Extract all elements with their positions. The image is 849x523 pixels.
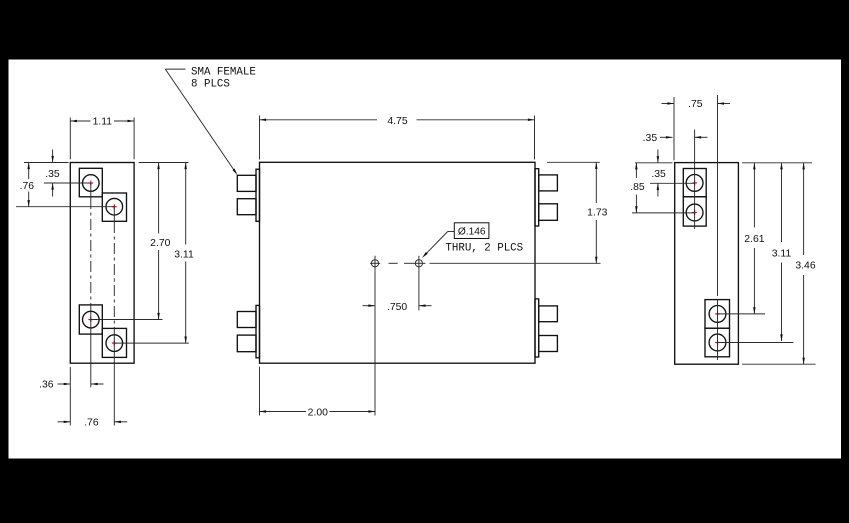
dimension .75 arrows bbox=[662, 102, 731, 105]
dimension 1.11 extension lines bbox=[70, 118, 134, 160]
dimension .36 arrows bbox=[58, 383, 104, 385]
right view bottom edge extension right bbox=[742, 363, 816, 365]
svg-text:3.11: 3.11 bbox=[174, 249, 194, 260]
dimension .35 left view arrows bbox=[51, 150, 54, 197]
svg-text:3.11: 3.11 bbox=[772, 249, 792, 260]
top view left connector body 2 bbox=[237, 199, 256, 215]
svg-text:SMA FEMALE: SMA FEMALE bbox=[191, 67, 256, 79]
dimension .76 left view line bbox=[27, 163, 30, 207]
hole centerline dashes bbox=[389, 262, 413, 264]
left view connector3 center extension line bbox=[91, 319, 163, 321]
left view SMA connector 1 flange bbox=[79, 168, 102, 197]
left view top edge extension line right bbox=[139, 162, 189, 164]
svg-text:4.75: 4.75 bbox=[387, 116, 407, 127]
dimension 1.11 text bbox=[93, 117, 113, 128]
dimension 2.00 line and arrows bbox=[260, 410, 376, 413]
svg-text:.35: .35 bbox=[651, 169, 666, 180]
right view SMA connector 2 flange bbox=[683, 197, 706, 226]
right view conn2 center extension left bbox=[632, 212, 695, 214]
left view top edge extension line left bbox=[24, 162, 69, 164]
right view SMA connector 2 center mark bbox=[692, 210, 697, 215]
right view top edge extension left bbox=[635, 162, 673, 164]
svg-text:8 PLCS: 8 PLCS bbox=[191, 79, 230, 91]
dimension 4.75 line and arrows bbox=[260, 119, 535, 122]
hole centerline extension right bbox=[430, 262, 601, 264]
right view lower pair centerline bbox=[717, 95, 719, 360]
right view left edge extension above bbox=[673, 97, 675, 160]
dimension .35 horizontal text bbox=[643, 133, 658, 144]
dimension .35 vertical text bbox=[651, 169, 666, 180]
dimension .36 text bbox=[39, 380, 54, 391]
right view body outline bbox=[675, 163, 739, 365]
dimension .76 bottom arrows bbox=[58, 421, 128, 424]
dimension .750 arrows bbox=[363, 304, 432, 307]
left view SMA connector 3 flange bbox=[79, 305, 102, 334]
left view centerline column A bbox=[90, 183, 92, 387]
top view left connector body 3 bbox=[237, 312, 256, 328]
dimension .35 left view text bbox=[45, 169, 60, 180]
right view SMA connector 1 barrel bbox=[686, 175, 703, 192]
dimension 2.70 text bbox=[150, 238, 170, 249]
top view right connector body 3 bbox=[539, 306, 558, 322]
left view body outline bbox=[70, 163, 134, 364]
svg-text:1.11: 1.11 bbox=[93, 117, 113, 128]
svg-text:.76: .76 bbox=[84, 418, 99, 429]
left view connector1 center extension line bbox=[44, 182, 91, 184]
right view SMA connector 1 flange bbox=[683, 169, 706, 197]
hole callout diameter text bbox=[458, 226, 486, 237]
dimension .85 text bbox=[630, 182, 645, 193]
top view right connector body 2 bbox=[539, 204, 558, 221]
left view centerline column B bbox=[113, 207, 115, 426]
top view left connector body 4 bbox=[237, 335, 256, 352]
right view conn1 center extension left bbox=[650, 182, 695, 184]
dimension 3.11 left view line bbox=[184, 163, 187, 344]
dimension 2.61 line bbox=[753, 163, 756, 314]
SMA FEMALE leader bbox=[165, 69, 237, 175]
hole callout box bbox=[454, 223, 489, 239]
svg-text:2.70: 2.70 bbox=[150, 238, 170, 249]
top view right connector body 4 bbox=[539, 336, 558, 352]
dimension .750 text bbox=[387, 302, 407, 313]
right view conn3 center extension right bbox=[718, 313, 766, 315]
dimension 2.61 text bbox=[744, 234, 764, 245]
left view SMA connector 2 flange bbox=[102, 193, 126, 221]
mounting hole 1 bbox=[370, 256, 380, 271]
right view conn4 center extension right bbox=[718, 342, 794, 344]
left view connector4 center extension line bbox=[114, 342, 189, 344]
right view SMA connector 4 flange bbox=[705, 328, 730, 357]
left view SMA connector 3 barrel bbox=[83, 311, 100, 328]
hole callout THRU text bbox=[445, 243, 523, 255]
dimension 1.73 text bbox=[587, 208, 607, 219]
right view SMA connector 3 center mark bbox=[715, 312, 720, 317]
hole1 centerline down bbox=[374, 271, 376, 416]
svg-text:Ø.146: Ø.146 bbox=[458, 226, 486, 237]
top view left edge extension below bbox=[259, 367, 261, 416]
dimension 1.11 line and arrows bbox=[70, 120, 134, 122]
svg-text:THRU, 2 PLCS: THRU, 2 PLCS bbox=[445, 243, 523, 255]
dimension 4.75 text bbox=[387, 116, 407, 127]
right view SMA connector 4 center mark bbox=[715, 340, 720, 345]
svg-text:.35: .35 bbox=[45, 169, 60, 180]
dimension 3.11 right view line bbox=[780, 163, 783, 341]
dimension 2.70 line bbox=[157, 163, 160, 320]
top view right connector body 1 bbox=[539, 175, 558, 191]
dimension .75 text bbox=[688, 99, 703, 110]
right view SMA connector 2 barrel bbox=[686, 204, 703, 221]
left view SMA connector 2 center mark bbox=[112, 204, 117, 209]
dimension .85 line bbox=[635, 163, 638, 213]
right view SMA connector 3 flange bbox=[705, 300, 730, 329]
svg-text:2.00: 2.00 bbox=[308, 408, 328, 419]
dimension 2.00 text bbox=[308, 408, 328, 419]
left view left edge extension line below bbox=[69, 367, 71, 426]
svg-text:.76: .76 bbox=[20, 181, 35, 192]
dimension 3.11 left view text bbox=[174, 249, 194, 260]
left view SMA connector 2 barrel bbox=[106, 198, 123, 215]
dimension .76 bottom text bbox=[84, 418, 99, 429]
svg-text:2.61: 2.61 bbox=[744, 234, 764, 245]
svg-text:.750: .750 bbox=[387, 302, 407, 313]
right view upper pair centerline bbox=[694, 130, 696, 230]
top view right upper connector pair flange bbox=[535, 169, 539, 226]
left view SMA connector 4 barrel bbox=[106, 335, 123, 352]
dimension 3.46 text bbox=[795, 261, 815, 272]
drawing sheet white area bbox=[9, 60, 842, 459]
mounting hole 2 bbox=[413, 256, 426, 271]
top edge extension line right of top view bbox=[547, 161, 600, 163]
dimension .35 vertical arrows bbox=[657, 150, 660, 197]
dimension 4.75 extension lines bbox=[260, 116, 535, 160]
svg-text:.85: .85 bbox=[630, 182, 645, 193]
hole callout leader bbox=[422, 232, 454, 259]
top view left lower connector pair flange bbox=[256, 305, 260, 357]
8 PLCS text bbox=[191, 79, 230, 91]
dimension .76 left view text bbox=[20, 181, 35, 192]
right view SMA connector 4 barrel bbox=[709, 334, 726, 351]
right view SMA connector 3 barrel bbox=[709, 306, 726, 323]
right view SMA connector 1 center mark bbox=[692, 181, 697, 186]
left view SMA connector 3 center mark bbox=[88, 317, 93, 322]
left view SMA connector 1 barrel bbox=[83, 175, 100, 192]
left view SMA connector 4 center mark bbox=[112, 341, 117, 346]
left view SMA connector 4 flange bbox=[102, 328, 126, 357]
top view right lower connector pair flange bbox=[535, 299, 539, 357]
dimension 3.11 right view text bbox=[772, 249, 792, 260]
left view connector2 center extension line bbox=[16, 206, 114, 208]
svg-text:1.73: 1.73 bbox=[587, 208, 607, 219]
svg-text:.35: .35 bbox=[643, 133, 658, 144]
top view body outline bbox=[260, 162, 536, 363]
top view left upper connector pair flange bbox=[256, 169, 260, 221]
dimension 3.46 line bbox=[802, 163, 805, 364]
svg-text:.36: .36 bbox=[39, 380, 54, 391]
top view left connector body 1 bbox=[237, 175, 256, 191]
dimension 1.73 line and arrows bbox=[595, 162, 598, 263]
SMA FEMALE text bbox=[191, 67, 256, 79]
right view top edge extension right bbox=[742, 162, 812, 164]
svg-text:.75: .75 bbox=[688, 99, 703, 110]
dimension .35 horizontal arrows bbox=[660, 136, 708, 139]
svg-text:3.46: 3.46 bbox=[795, 261, 815, 272]
hole2 centerline down bbox=[418, 271, 420, 311]
left view SMA connector 1 center mark bbox=[88, 181, 93, 186]
